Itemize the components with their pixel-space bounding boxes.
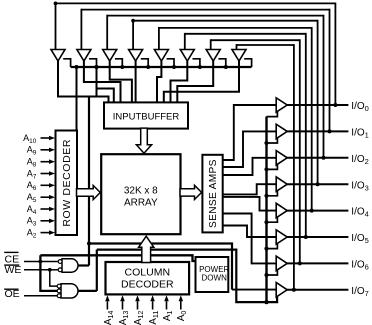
svg-text:ARRAY: ARRAY bbox=[124, 198, 158, 209]
svg-text:ROW DECODER: ROW DECODER bbox=[61, 139, 73, 227]
svg-text:DOWN: DOWN bbox=[202, 274, 228, 283]
svg-text:INPUTBUFFER: INPUTBUFFER bbox=[113, 111, 180, 122]
svg-text:DECODER: DECODER bbox=[121, 279, 174, 291]
svg-text:COLUMN: COLUMN bbox=[125, 267, 171, 279]
svg-text:32K x 8: 32K x 8 bbox=[124, 186, 158, 197]
svg-text:SENSE AMPS: SENSE AMPS bbox=[208, 159, 219, 228]
